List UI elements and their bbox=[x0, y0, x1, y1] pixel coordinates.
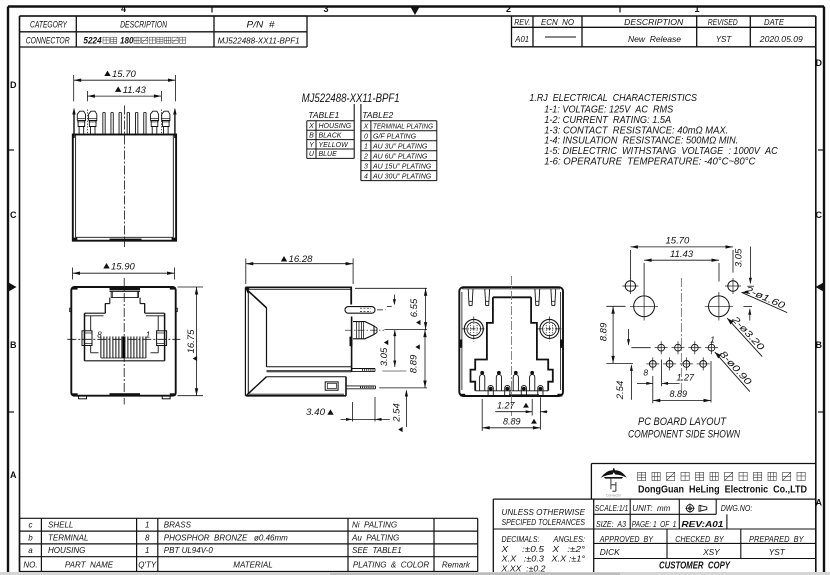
svg-text:ANGLES:: ANGLES: bbox=[553, 534, 585, 544]
small arrow to peg line bbox=[393, 295, 395, 304]
pcb leader 2-3.20 bbox=[727, 318, 762, 356]
top view corner seam arrow left bbox=[72, 108, 75, 115]
pcb pin holes 0.90 upper row bbox=[658, 344, 665, 351]
svg-text:CHECKED BY: CHECKED BY bbox=[675, 534, 725, 544]
pcb leader 8-0.90 bbox=[715, 352, 750, 392]
svg-text:2.54: 2.54 bbox=[391, 403, 402, 423]
svg-text:X.XX :±0.2: X.XX :±0.2 bbox=[500, 563, 545, 573]
svg-text:MATERIAL: MATERIAL bbox=[233, 561, 272, 570]
svg-text:DECIMALS:: DECIMALS: bbox=[502, 534, 540, 544]
svg-text:SEE TABLE1: SEE TABLE1 bbox=[352, 546, 402, 555]
svg-text:3.40: 3.40 bbox=[306, 407, 326, 418]
svg-text:3: 3 bbox=[323, 4, 328, 14]
svg-text:YST: YST bbox=[769, 547, 786, 557]
svg-text:YELLOW: YELLOW bbox=[319, 142, 350, 149]
svg-text:PLATING & COLOR: PLATING & COLOR bbox=[353, 561, 430, 570]
svg-text:PAGE: 1 OF 1: PAGE: 1 OF 1 bbox=[632, 519, 677, 529]
company logo wing bbox=[601, 468, 627, 478]
svg-text:2020.05.09: 2020.05.09 bbox=[759, 34, 803, 44]
svg-text:NO.: NO. bbox=[23, 561, 37, 570]
svg-text:C: C bbox=[816, 210, 823, 220]
pcb arrow to upper pin row bbox=[628, 329, 630, 345]
svg-text:8: 8 bbox=[97, 331, 102, 340]
svg-text:Y: Y bbox=[309, 142, 315, 149]
svg-text:8.89: 8.89 bbox=[670, 389, 688, 399]
zone ticks top bbox=[211, 7, 213, 13]
top view corner seam arrow right bbox=[173, 108, 176, 115]
zone center mark right bbox=[816, 283, 824, 292]
zone center mark left bbox=[9, 283, 17, 292]
side view dark latch tab on edge bbox=[350, 337, 353, 347]
front view vertical centerline bbox=[123, 278, 125, 405]
top view inner bottom line bbox=[76, 236, 174, 238]
bottom view shield finger slots bbox=[467, 289, 470, 306]
svg-text:15.70: 15.70 bbox=[112, 69, 136, 80]
top view bottom thick segment bbox=[110, 239, 142, 242]
front view cavity bottom shelf bbox=[85, 360, 165, 362]
top view latch tab d bbox=[162, 111, 170, 120]
side view reference line leg1 bbox=[382, 370, 406, 372]
pcb dim 8.89 left bbox=[606, 305, 625, 307]
svg-text:11.43: 11.43 bbox=[123, 85, 147, 96]
top view inner side wall lines bbox=[75, 135, 77, 238]
svg-text:ECN NO: ECN NO bbox=[541, 18, 574, 27]
dim 16.75 (front view height) bbox=[178, 286, 204, 288]
svg-text:DESCRIPTION: DESCRIPTION bbox=[624, 18, 683, 27]
side view corner seam mark bbox=[245, 287, 250, 293]
front view bottom thick segment bbox=[110, 393, 141, 396]
bottom view comb floor bbox=[475, 390, 548, 392]
dim 6.55 bbox=[425, 288, 427, 329]
pcb dim 8.89 bottom bbox=[710, 361, 712, 403]
bottom view center cavity pedestal bbox=[493, 296, 531, 298]
side view cone post bbox=[353, 322, 374, 339]
table1 grid bbox=[307, 120, 354, 122]
svg-text:CUSTOMER COPY: CUSTOMER COPY bbox=[659, 561, 731, 572]
top view latch hidden line left bbox=[86, 110, 88, 134]
front view cavity inner walls bbox=[90, 316, 92, 331]
svg-text:Q'TY: Q'TY bbox=[138, 561, 157, 570]
sheet border outer frame bbox=[8, 5, 824, 7]
bottom view body outline bbox=[459, 287, 563, 396]
svg-text:3.05: 3.05 bbox=[734, 248, 745, 267]
svg-text:DICK: DICK bbox=[600, 547, 620, 557]
svg-text:C: C bbox=[10, 210, 17, 220]
side view reference line top bbox=[355, 287, 427, 289]
projection symbol bbox=[686, 505, 693, 512]
side view post centerline bbox=[345, 329, 384, 331]
svg-text:A01: A01 bbox=[514, 35, 529, 44]
side view reference line leg2 bbox=[379, 387, 427, 389]
svg-text:SPECIFED TOLERANCES: SPECIFED TOLERANCES bbox=[502, 517, 586, 527]
svg-text:REV:A01: REV:A01 bbox=[681, 519, 723, 529]
svg-text:BRASS: BRASS bbox=[164, 521, 192, 530]
sheet border inner frame bbox=[20, 15, 816, 17]
svg-text:P/N #: P/N # bbox=[247, 19, 276, 29]
svg-text:DWG.NO:: DWG.NO: bbox=[721, 503, 753, 513]
svg-text:U: U bbox=[309, 151, 315, 158]
side view pcb leg 2 bbox=[346, 385, 376, 387]
top view latch tab c bbox=[150, 111, 158, 120]
bottom view upper pin slots bbox=[480, 374, 485, 390]
pcb dim 11.43 bbox=[643, 263, 645, 295]
svg-text:HOUSING: HOUSING bbox=[48, 546, 85, 555]
dim 8.89 (bottom view pin span) bbox=[482, 427, 540, 429]
dim 3.40 (side view) bbox=[352, 402, 354, 422]
svg-text:1: 1 bbox=[145, 546, 149, 555]
svg-text:TERMINAL PLATING: TERMINAL PLATING bbox=[373, 123, 433, 130]
part number callout leader lines bbox=[353, 104, 355, 158]
svg-text:1.27: 1.27 bbox=[497, 401, 516, 411]
svg-text:1: 1 bbox=[145, 521, 149, 530]
svg-text:2-ø1.60: 2-ø1.60 bbox=[742, 284, 787, 312]
svg-text:PC BOARD LAYOUT: PC BOARD LAYOUT bbox=[638, 416, 727, 428]
svg-text:X :±0.5 X :±2°: X :±0.5 X :±2° bbox=[500, 544, 586, 554]
svg-text:1: 1 bbox=[694, 4, 699, 14]
front view key tower bbox=[110, 290, 141, 292]
svg-text:b: b bbox=[28, 533, 33, 542]
svg-text:180: 180 bbox=[120, 36, 134, 46]
bottom view side latch cut left bbox=[459, 340, 462, 348]
dim 2.54 (side view) bbox=[405, 391, 407, 428]
dim 8.89 (side view) bbox=[424, 330, 426, 388]
svg-text:G/F PLATING: G/F PLATING bbox=[373, 133, 417, 140]
svg-text:PHOSPHOR BRONZE ø0.46mm: PHOSPHOR BRONZE ø0.46mm bbox=[164, 533, 288, 542]
svg-text:11.43: 11.43 bbox=[670, 249, 694, 260]
pcb leader 2-1.60 bbox=[742, 292, 788, 312]
svg-text:6.55: 6.55 bbox=[409, 298, 420, 317]
svg-text:8.89: 8.89 bbox=[599, 322, 610, 341]
svg-text:4: 4 bbox=[364, 173, 368, 180]
bottom gray strip bbox=[0, 572, 830, 575]
company logo HL monogram bbox=[610, 479, 612, 490]
zone ticks right bbox=[818, 149, 824, 151]
svg-text:REVISED: REVISED bbox=[708, 18, 738, 27]
svg-text:MJ522488-XX11-BPF1: MJ522488-XX11-BPF1 bbox=[218, 36, 300, 46]
top view latch hidden line right bbox=[160, 110, 162, 134]
category table grid bbox=[20, 15, 308, 17]
svg-text:CONNECTOR: CONNECTOR bbox=[26, 36, 70, 46]
svg-text:15.70: 15.70 bbox=[666, 236, 690, 247]
company block frame bbox=[591, 463, 815, 465]
svg-text:APPROVED BY: APPROVED BY bbox=[599, 534, 654, 544]
svg-text:16.28: 16.28 bbox=[289, 254, 314, 265]
svg-text:3.05: 3.05 bbox=[379, 347, 390, 366]
svg-text:5224: 5224 bbox=[83, 36, 101, 46]
front view shield outline bbox=[71, 287, 175, 396]
svg-text:MJ522488-XX11-BPF1: MJ522488-XX11-BPF1 bbox=[302, 93, 400, 105]
dim 15.70 (top view width) bbox=[73, 75, 75, 101]
svg-text:15.90: 15.90 bbox=[111, 261, 135, 272]
svg-text:PREPARED BY: PREPARED BY bbox=[749, 534, 805, 544]
svg-text:16.75: 16.75 bbox=[186, 329, 197, 353]
svg-text:DongGuan HeLing Electronic: DongGuan HeLing Electronic Co.,LTD bbox=[638, 483, 807, 495]
top view shield fingers bbox=[102, 113, 104, 135]
side view front bevel bbox=[247, 290, 267, 308]
bottom view side latch cut right bbox=[560, 340, 563, 348]
front view horizontal centerline bbox=[67, 338, 180, 340]
pcb hole 3.20 right bbox=[709, 296, 730, 317]
svg-text:AU 6U” PLATING: AU 6U” PLATING bbox=[372, 153, 428, 160]
svg-text:BLUE: BLUE bbox=[319, 151, 338, 158]
svg-text:REV.: REV. bbox=[514, 18, 530, 27]
svg-text:SHELL: SHELL bbox=[48, 521, 73, 530]
svg-text:UNLESS OTHERWISE: UNLESS OTHERWISE bbox=[502, 507, 586, 517]
svg-text:1: 1 bbox=[146, 331, 150, 340]
front view latch window right bbox=[157, 331, 167, 346]
front view latch window left bbox=[82, 331, 92, 346]
svg-text:4: 4 bbox=[121, 4, 126, 14]
svg-text:a: a bbox=[28, 546, 33, 555]
svg-text:1.RJ ELECTRICAL CHARACTERIST: 1.RJ ELECTRICAL CHARACTERISTICS bbox=[529, 92, 697, 104]
revision table grid bbox=[511, 16, 513, 47]
top view latch tab b bbox=[89, 111, 97, 120]
svg-text:DATE: DATE bbox=[764, 18, 785, 27]
dim 16.28 (side view width) bbox=[245, 259, 247, 285]
side view base block bbox=[267, 376, 347, 378]
svg-text:BLACK: BLACK bbox=[319, 132, 342, 139]
bottom view vertical centerline bbox=[511, 276, 513, 416]
svg-text:A: A bbox=[816, 498, 823, 508]
bottom view screw boss circle left bbox=[464, 319, 483, 338]
svg-text:Connector: Connector bbox=[606, 494, 622, 498]
bottom view inner wall lines bbox=[461, 292, 463, 390]
front view side nubs bbox=[70, 308, 72, 311]
svg-text:X: X bbox=[363, 123, 369, 130]
top view vertical centerline bbox=[124, 106, 126, 248]
svg-text:1: 1 bbox=[364, 143, 368, 150]
svg-text:1.27: 1.27 bbox=[677, 373, 696, 383]
svg-text:SCALE:1/1: SCALE:1/1 bbox=[595, 503, 629, 513]
svg-text:New Release: New Release bbox=[628, 34, 681, 44]
svg-text:SIZE: A3: SIZE: A3 bbox=[596, 519, 626, 529]
svg-text:3: 3 bbox=[364, 163, 368, 170]
svg-text:TABLE2: TABLE2 bbox=[362, 110, 393, 120]
dim 3.05 (side view) bbox=[394, 330, 396, 367]
svg-text:2.54: 2.54 bbox=[615, 381, 626, 401]
svg-text:HOUSING: HOUSING bbox=[319, 123, 352, 130]
dim 1.27 (bottom view pin stagger) bbox=[481, 399, 483, 431]
svg-text:A: A bbox=[10, 470, 17, 480]
svg-text:AU 30U” PLATING: AU 30U” PLATING bbox=[372, 173, 432, 180]
svg-text:Ni PALTING: Ni PALTING bbox=[352, 521, 397, 530]
svg-text:X.X :±0.3 X.X :±1°: X.X :±0.3 X.X :±1° bbox=[500, 554, 585, 564]
front view cavity upper ledge bbox=[85, 312, 106, 314]
table2 grid bbox=[361, 120, 437, 122]
zone ticks left bbox=[8, 149, 14, 151]
svg-text:2-ø3.20: 2-ø3.20 bbox=[729, 314, 767, 354]
side view pcb leg 1 bbox=[352, 368, 375, 370]
svg-text:1-6: OPERATURE TEMPERATURE: -: 1-6: OPERATURE TEMPERATURE: -40°C~80°C bbox=[544, 155, 756, 167]
pcb vertical centerline bbox=[680, 278, 682, 392]
svg-text:8: 8 bbox=[145, 533, 150, 542]
zone center mark top bbox=[411, 7, 420, 15]
svg-text:8.89: 8.89 bbox=[503, 417, 521, 427]
svg-text:TERMINAL: TERMINAL bbox=[48, 533, 88, 542]
side view base small rectangle bbox=[325, 382, 338, 390]
svg-text:YST: YST bbox=[716, 35, 733, 44]
svg-text:B: B bbox=[816, 340, 823, 350]
svg-text:2: 2 bbox=[363, 153, 368, 160]
svg-text:8: 8 bbox=[643, 368, 648, 378]
pcb dim 2.54 bbox=[630, 366, 632, 400]
svg-text:D: D bbox=[816, 58, 823, 68]
svg-text:PBT UL94V-0: PBT UL94V-0 bbox=[164, 546, 214, 555]
svg-text:AU 15U” PLATING: AU 15U” PLATING bbox=[372, 163, 432, 170]
pcb dim 15.70 bbox=[629, 250, 631, 279]
svg-text:AU 3U” PLATING: AU 3U” PLATING bbox=[372, 143, 428, 150]
pcb pin holes 0.90 lower row bbox=[649, 361, 656, 368]
svg-text:TABLE1: TABLE1 bbox=[308, 110, 339, 120]
svg-text:1: 1 bbox=[710, 335, 715, 345]
top view latch tab a bbox=[77, 111, 85, 120]
bottom view bottom thick segments bbox=[509, 394, 539, 396]
bottom view screw boss circle right bbox=[540, 319, 559, 338]
svg-text:2: 2 bbox=[506, 4, 511, 14]
svg-text:D: D bbox=[10, 80, 17, 90]
front view mounting feet bbox=[79, 396, 87, 399]
top view body outline bbox=[73, 135, 176, 241]
pcb hole 1.60 right bbox=[728, 281, 738, 291]
side view reference line post center bbox=[384, 329, 427, 331]
front view contact comb bbox=[100, 336, 102, 358]
pcb hole 3.20 left bbox=[634, 296, 655, 317]
side view latch peg bbox=[345, 307, 375, 314]
svg-text:DESCRIPTION: DESCRIPTION bbox=[120, 19, 167, 29]
dim 15.90 (front view width) bbox=[72, 268, 74, 280]
svg-text:CATEGORY: CATEGORY bbox=[30, 19, 68, 29]
company chinese name bbox=[638, 472, 646, 480]
svg-text:Au PALTING: Au PALTING bbox=[351, 533, 399, 542]
svg-text:UNIT: mm: UNIT: mm bbox=[632, 503, 670, 513]
title block grid bbox=[493, 498, 816, 500]
side view body outline bbox=[245, 287, 351, 304]
svg-text:PART NAME: PART NAME bbox=[65, 561, 114, 570]
side view peg centerline bbox=[377, 309, 386, 311]
svg-text:c: c bbox=[29, 521, 33, 530]
svg-text:8.89: 8.89 bbox=[409, 354, 420, 373]
svg-text:X: X bbox=[308, 123, 314, 130]
svg-text:XSY: XSY bbox=[702, 547, 721, 557]
dim 11.43 (latch spacing) bbox=[86, 91, 88, 101]
pcb dim 3.05 bbox=[749, 247, 751, 284]
pcb hole 1.60 left bbox=[625, 281, 635, 291]
svg-text:0: 0 bbox=[364, 133, 368, 140]
svg-text:Remark: Remark bbox=[442, 561, 471, 570]
front view top thick key segment bbox=[110, 288, 141, 291]
svg-text:B: B bbox=[10, 340, 17, 350]
bottom view lower pin slots bbox=[488, 385, 493, 396]
svg-text:8-ø0.90: 8-ø0.90 bbox=[717, 349, 754, 388]
parts table grid bbox=[20, 517, 478, 519]
pcb dim 1.27 bbox=[652, 376, 654, 403]
side view mid band lines bbox=[267, 366, 352, 368]
front view cavity side walls bbox=[84, 313, 86, 361]
svg-text:COMPONENT SIDE SHOWN: COMPONENT SIDE SHOWN bbox=[628, 429, 740, 441]
svg-text:B: B bbox=[309, 132, 314, 139]
